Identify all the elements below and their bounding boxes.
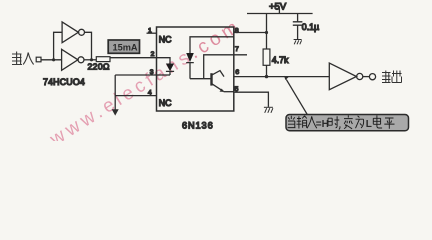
wire pin 8 to +5V rail drop — [234, 32, 267, 34]
svg-text:7: 7 — [235, 46, 239, 53]
svg-text:2: 2 — [151, 51, 155, 58]
photodiode D2 — [186, 53, 194, 62]
wire resistor R1 to pin 2 — [110, 57, 157, 59]
wire rail to resistor R2 — [266, 14, 268, 50]
wire drop to pin 4 — [115, 95, 156, 97]
svg-text:4: 4 — [148, 90, 152, 97]
svg-text:NC: NC — [159, 34, 172, 44]
callout note box — [286, 115, 409, 131]
IC U2 6N136 body — [157, 27, 234, 111]
wire U1B output to resistor R1 — [84, 59, 96, 61]
svg-text:L: L — [366, 119, 372, 130]
svg-text:NC: NC — [159, 98, 172, 108]
inverter U1B 74HCU04 — [62, 49, 78, 70]
ground arrow LED return — [112, 109, 119, 115]
svg-text:8: 8 — [235, 28, 239, 35]
+5V tick — [278, 8, 280, 13]
node input junction — [52, 58, 55, 61]
wire U1A output down to output junction — [85, 32, 92, 60]
label 输出 — [382, 71, 402, 83]
node pin8 rail junction — [265, 31, 268, 34]
LED D1 — [166, 64, 174, 72]
+5V rail — [247, 13, 313, 15]
transistor Q1 emitter — [212, 84, 224, 92]
svg-text:0.1µ: 0.1µ — [302, 22, 319, 32]
resistor R1 220 ohm — [96, 57, 110, 62]
svg-text:74HCUO4: 74HCUO4 — [43, 77, 85, 87]
svg-text:4.7k: 4.7k — [272, 55, 289, 65]
transistor Q1 collector — [212, 71, 225, 77]
inverter U1A 74HCU04 — [62, 22, 78, 43]
pin 7 stub and base tap — [204, 55, 247, 79]
svg-text:15mA: 15mA — [113, 42, 138, 52]
svg-text:+5V: +5V — [269, 1, 287, 12]
callout text 当输入=H时,变为L电平 — [288, 116, 317, 129]
ground pin 5 — [264, 107, 273, 113]
wire pin 8 internal photodiode feed — [190, 37, 234, 53]
wire pin 2 internal to LED anode — [157, 58, 171, 64]
wire pin 5 to ground — [234, 92, 269, 107]
svg-text:220Ω: 220Ω — [88, 62, 111, 72]
capacitor C1 top lead — [297, 14, 299, 22]
ground capacitor — [294, 40, 302, 45]
label 输入 — [12, 52, 34, 65]
wire U3 to output terminal — [363, 76, 370, 78]
node R2 output junction — [265, 75, 268, 78]
svg-text:=H: =H — [316, 119, 329, 130]
wire photodiode to transistor base — [190, 78, 211, 80]
input terminal — [36, 57, 41, 62]
resistor R2 4.7k — [263, 49, 270, 65]
wire input to junction — [41, 59, 62, 61]
pin 1 lead — [147, 32, 157, 34]
wire pin 6 output line — [234, 76, 329, 78]
capacitor C1 bottom lead — [297, 25, 299, 39]
transistor Q1 base bar — [210, 73, 212, 85]
wire junction up to inverter U1A input — [54, 32, 63, 60]
svg-text:1: 1 — [148, 28, 152, 35]
capacitor C1 plates — [293, 22, 303, 25]
svg-text:6: 6 — [235, 69, 239, 76]
wire R2 to output line — [266, 65, 268, 76]
watermark www.elecfans.com — [46, 15, 246, 151]
svg-text:6N136: 6N136 — [182, 121, 214, 131]
output terminal — [369, 74, 375, 80]
callout leader arrow — [286, 79, 307, 114]
wire pin 3 external to drop — [115, 74, 156, 76]
wire LED cathode to pin 3 internal — [157, 74, 171, 76]
wire ground drop vertical — [114, 75, 116, 110]
node inverter outputs junction — [90, 58, 93, 61]
inverter U3 output buffer — [329, 63, 356, 90]
current label box 15mA — [108, 40, 139, 53]
